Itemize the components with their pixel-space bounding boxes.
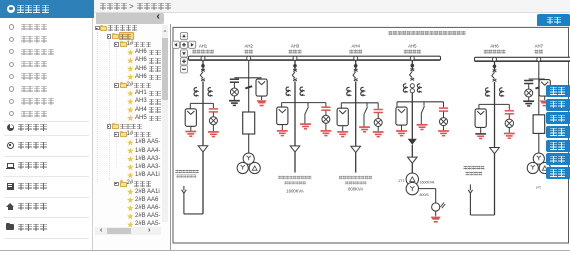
node: bus connection stab	[247, 56, 251, 60]
wire	[202, 82, 204, 104]
earthing point AH5 secondary	[432, 203, 446, 211]
surge arrester F1	[185, 109, 196, 127]
svg-text:AH1: AH1	[199, 43, 208, 48]
node: bus connection stab	[354, 56, 358, 60]
wire	[443, 102, 445, 108]
wire	[190, 126, 192, 131]
wire	[528, 97, 530, 101]
wire	[183, 186, 185, 191]
lamp AH1	[209, 117, 217, 125]
junction dot	[411, 64, 415, 68]
svg-text:1600KVA: 1600KVA	[286, 189, 304, 194]
wire	[435, 211, 437, 216]
capacitor AH1 (red)	[209, 109, 218, 112]
label: from phase-1 substation center cabinet	[176, 170, 199, 173]
wire	[233, 83, 235, 88]
svg-text:AH2: AH2	[245, 43, 254, 48]
wire	[202, 60, 204, 70]
transformer 1T1 1600KVA	[406, 173, 418, 195]
wire	[342, 126, 344, 132]
ground AH5 switch (red)	[417, 125, 428, 130]
CT AH5 right	[417, 84, 422, 92]
node: bus connection stab	[493, 57, 497, 61]
ground AH6 lamp branch (red)	[504, 134, 515, 139]
ground AH7 arrester (red earth)	[540, 100, 550, 106]
surge arrester F4	[337, 108, 348, 126]
wire	[212, 125, 214, 132]
ground AH4 switch (red)	[359, 127, 370, 132]
wire	[377, 103, 379, 109]
wire	[294, 82, 296, 103]
wire	[470, 214, 494, 216]
capacitor AH3 (red)	[321, 107, 330, 110]
capacitor AH7 (black)	[524, 81, 533, 84]
CT AH1 right	[208, 88, 213, 96]
voltage transformer PT1 (3-winding)	[237, 153, 260, 174]
node: bus connection stab	[201, 56, 205, 60]
wire	[248, 60, 250, 77]
lamp AH7	[525, 89, 533, 97]
wire	[294, 152, 296, 172]
wire	[435, 189, 437, 203]
wire	[411, 163, 413, 173]
wire	[494, 61, 496, 70]
svg-text:1600KVA: 1600KVA	[420, 181, 436, 185]
wire	[377, 113, 379, 119]
node: bus connection stab	[293, 56, 297, 60]
breaker QF5 (drawout contacts + blade)	[410, 69, 415, 81]
ground AH3 lamp branch (red)	[321, 131, 332, 136]
surge arrester F6	[475, 109, 486, 128]
svg-text:800/5: 800/5	[420, 193, 429, 197]
earthing switch AH5	[421, 102, 424, 114]
label: from phase-1 center cabinet	[464, 166, 485, 170]
capacitor AH2 (black)	[230, 79, 239, 82]
wire	[377, 127, 379, 132]
wire	[248, 78, 250, 112]
ground AH3 switch (red)	[300, 124, 311, 129]
CT AH3 left	[286, 87, 291, 95]
wire	[396, 102, 398, 107]
voltage transformer PT2 (3-winding)	[527, 153, 550, 174]
wire	[443, 126, 445, 131]
CT AH6 right	[500, 88, 505, 96]
wire	[419, 188, 436, 190]
wire: AH3 junction bar	[282, 102, 326, 104]
junction dot	[354, 64, 358, 68]
wire	[420, 113, 422, 124]
breaker QF1 (drawout contacts + blade)	[200, 69, 205, 81]
wire	[355, 103, 357, 146]
wire	[294, 103, 296, 146]
wire	[508, 128, 510, 134]
wire	[202, 103, 204, 145]
ground AH2 lamp branch	[229, 101, 240, 106]
wire	[528, 84, 530, 89]
wire	[494, 154, 496, 215]
wire: AH2 junction bar	[234, 77, 261, 79]
surge arrester F5	[396, 107, 407, 125]
ground AH3 arrester (red)	[277, 131, 288, 136]
wire	[233, 96, 235, 100]
wire: AH7 junction bar	[529, 78, 545, 80]
svg-text:AH5: AH5	[408, 43, 417, 48]
drawout contacts AH5	[410, 84, 414, 88]
feeder arrow AH3	[290, 146, 300, 152]
wire	[281, 125, 283, 131]
lamp AH3	[322, 115, 330, 123]
ground AH1 arrester (red)	[185, 132, 196, 137]
wire: AH6 junction bar	[479, 103, 509, 105]
capacitor AH4 (red)	[374, 110, 383, 113]
earthing switch AH3	[305, 103, 309, 115]
PT fuse AH2	[243, 112, 255, 134]
wire	[325, 111, 327, 116]
arrow: incoming from center cabinet	[468, 190, 472, 193]
wire	[325, 123, 327, 130]
ground AH5 arrester (red)	[396, 131, 407, 136]
cable terminal AH6	[490, 148, 500, 154]
wire	[355, 60, 357, 70]
wire	[544, 96, 546, 100]
capacitor AH5 (red)	[439, 108, 448, 111]
wire	[508, 104, 510, 110]
wire	[494, 82, 496, 104]
surge arrester F2	[256, 79, 267, 96]
title label: plant 10KV one-line diagram	[389, 31, 466, 35]
surge arrester F7	[539, 80, 550, 97]
wire	[261, 96, 263, 100]
wire	[281, 103, 283, 108]
node: bus connection stab	[410, 56, 414, 60]
wire: AH5 junction bar	[397, 101, 444, 103]
svg-text:800KVA: 800KVA	[348, 187, 363, 192]
wire	[294, 60, 296, 70]
wire	[538, 61, 540, 79]
wire	[340, 103, 342, 109]
wire	[212, 103, 214, 108]
wire	[443, 112, 445, 118]
wire	[189, 103, 191, 109]
wire	[325, 103, 327, 107]
wire	[411, 93, 413, 102]
ground AH5 lamp branch (red)	[438, 131, 449, 136]
svg-text:AH3: AH3	[291, 43, 300, 48]
wire	[411, 145, 413, 157]
lamp AH6	[505, 119, 513, 127]
CT AH1 left	[194, 88, 199, 96]
cable terminal AH5	[408, 157, 418, 163]
svg-text:PT: PT	[536, 186, 542, 190]
fuse link AH2	[245, 86, 252, 88]
wire	[538, 79, 540, 115]
junction dot	[201, 64, 205, 68]
junction dot	[293, 64, 297, 68]
wire	[212, 113, 214, 117]
earthing switch AH4	[364, 103, 367, 115]
breaker QF6 (drawout contacts + blade)	[492, 70, 497, 82]
bus I (left 10KV busbar)	[189, 56, 441, 60]
arrow: incoming from substation 1	[182, 190, 187, 194]
wire	[480, 127, 482, 133]
lamp AH5	[440, 118, 448, 126]
ground AH5 secondary (red earth)	[431, 217, 441, 223]
wire	[411, 60, 413, 69]
wire	[411, 102, 413, 139]
wire	[478, 104, 480, 109]
CT AH6 left	[486, 88, 491, 96]
wire	[248, 134, 250, 153]
ground AH4 arrester (red)	[337, 132, 348, 137]
pan-zoom control cluster	[172, 32, 195, 72]
wire	[304, 114, 306, 124]
CT AH4 right	[361, 87, 366, 95]
lamp AH2	[230, 88, 238, 96]
node: bus connection stab	[537, 57, 541, 61]
wire	[508, 114, 510, 119]
surge arrester F3	[277, 107, 288, 125]
label: to 8# district art center 800KVA	[339, 176, 372, 180]
breaker QF3 (drawout contacts + blade)	[292, 69, 297, 81]
ground AH4 lamp branch (red)	[373, 132, 384, 137]
wire: AH4 junction bar	[341, 102, 378, 104]
CT AH3 right	[300, 87, 305, 95]
wire	[494, 104, 496, 147]
fuse link AH7	[535, 86, 542, 88]
feeder arrow AH4	[351, 146, 361, 152]
junction dot	[493, 65, 497, 69]
wire	[538, 133, 540, 153]
ground AH6 arrester (earth)	[475, 134, 486, 139]
label: to 7# district bldg 1600KVA	[278, 176, 311, 180]
capacitor AH6 (red)	[505, 111, 514, 114]
wire	[183, 193, 185, 214]
wire	[202, 152, 204, 214]
ground AH2 arrester (red earth)	[257, 100, 267, 106]
svg-text:AH6: AH6	[490, 43, 499, 48]
wire	[469, 184, 471, 190]
wire	[355, 153, 357, 173]
wire	[184, 213, 203, 215]
wire: AH1 junction bar	[190, 102, 213, 104]
wire	[355, 82, 357, 103]
lamp AH4	[374, 119, 382, 127]
cable terminal AH1	[198, 146, 208, 152]
CT AH5 left	[403, 84, 408, 92]
cable head AH5	[408, 139, 417, 145]
svg-text:AH4: AH4	[352, 43, 361, 48]
CT AH4 left	[347, 87, 352, 95]
ground AH1 lamp branch (red)	[208, 132, 219, 137]
svg-text:AH7: AH7	[535, 43, 544, 48]
bus II (right 10KV busbar)	[475, 57, 570, 61]
wire	[363, 114, 365, 127]
svg-text:1T1: 1T1	[398, 179, 404, 183]
wire	[401, 125, 403, 131]
ground AH7 lamp branch	[523, 101, 534, 106]
PT fuse AH7	[533, 115, 545, 134]
breaker QF4 (drawout contacts + blade)	[353, 69, 358, 81]
wire	[469, 193, 471, 215]
